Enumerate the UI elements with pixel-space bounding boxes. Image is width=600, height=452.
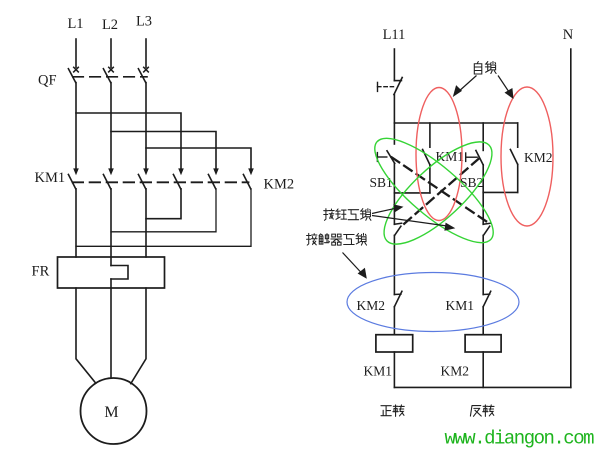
aux contact KM2 join wire [483,191,518,193]
button SB2 NC contact in left branch bar [394,223,401,224]
svg-text:KM2: KM2 [264,177,295,193]
breaker QF pole 2 blade [103,69,110,83]
svg-text:L1: L1 [67,16,83,32]
button SB1 blade [387,151,395,164]
highlight green ellipse button interlock A [361,123,507,258]
arrow self-lock to red ellipse 1 [458,76,477,93]
wire phase2 FR to motor [110,279,112,378]
svg-text:SB1: SB1 [370,175,393,190]
button SB1 NC contact blade [483,226,489,235]
contactor KM1 pole2 arrow [108,168,114,175]
aux contact KM1 blade [423,150,430,165]
button SB2 blade [476,151,483,165]
breaker QF pole 1 blade [68,69,75,83]
wire coil2 to bus [482,352,484,387]
wire branch phase3 to KM2 pole6 [146,148,251,169]
aux contact KM2 wire top [517,123,519,147]
contactor KM2 pole4 blade [173,175,180,189]
wire phase2 KM1 to FR [110,189,112,266]
motor M circle [81,378,147,444]
wire KM2NC to coil [393,307,395,335]
wire phase3 FR to motor [131,288,146,384]
svg-text:M: M [104,404,118,421]
button SB1 actuator [376,153,378,162]
contactor KM1 pole3 arrow [143,168,149,175]
button SB2 actuator [465,153,467,161]
svg-text:KM1: KM1 [436,149,465,164]
aux contact KM2 wire bottom [517,164,519,192]
button SB2 NC contact blade [395,226,401,235]
wire L3 drop to QF [145,39,147,67]
breaker QF pole 3 contact cross [144,67,149,72]
mechanical link dashed SB1 to SB1NC [392,157,487,221]
wire KM2 pole4 cross to phase3 [146,189,181,219]
svg-text:L3: L3 [136,14,152,30]
wire KM1NC to coil [482,307,484,335]
wire phase1 QF to KM1 arrow [75,83,77,170]
coil KM2 [465,335,501,352]
coil KM1 [376,335,413,352]
wire KM2 pole5 cross to phase2 [111,189,216,232]
svg-text:L11: L11 [383,27,406,43]
interlock KM2 NC bar [394,293,401,295]
svg-text:L2: L2 [102,17,118,33]
contactor KM2 pole4 arrow [178,168,184,175]
aux contact KM1 wire bottom [429,165,431,193]
breaker QF linkage dashed [73,76,147,78]
contactor KM2 pole5 arrow [213,168,219,175]
breaker QF pole 2 contact cross [109,67,114,72]
wire control top bus [394,122,517,124]
svg-text:KM2: KM2 [357,298,386,313]
wire branch phase1 to KM2 pole4 [76,113,181,169]
contactor KM2 pole6 arrow [248,168,254,175]
label zisuo (self-lock) [474,62,496,75]
thermal contact FR NC blade [394,78,402,95]
interlock KM1 NC bar [483,293,490,295]
wire N drop [570,49,572,387]
arrow button-interlock lower [372,216,447,227]
thermal relay FR heater jog [111,266,128,280]
wire SB2NC down [393,235,395,294]
wire L11 drop [393,49,395,81]
svg-text:KM2: KM2 [524,150,553,165]
highlight blue ellipse contactor interlock [347,273,519,332]
wire phase1 FR to motor [76,288,96,383]
aux contact KM1 join wire [394,192,430,194]
highlight red ellipse self-lock KM2 [501,87,553,226]
aux contact KM2 blade [510,150,517,165]
svg-text:QF: QF [38,73,57,89]
arrow contactor-interlock to blue ellipse [343,253,363,274]
arrow self-lock to red ellipse 2 [498,76,509,93]
highlight green ellipse button interlock B [370,127,506,259]
wire FR to bus [393,95,395,123]
breaker QF pole 1 contact cross [74,67,79,72]
wire bottom bus to N [394,386,570,388]
svg-text:FR: FR [32,264,50,280]
button SB1 NC contact in right branch bar [483,223,490,224]
contactor KM1 pole2 blade [103,175,110,189]
label zhengzhuan (forward) [381,405,404,416]
thermal contact FR actuator bar [377,82,379,91]
wire coil1 to bus [393,352,395,387]
wire phase1 KM1 to FR [75,189,77,257]
interlock KM2 NC blade [394,291,402,306]
wire SB1 to SB2NC [393,163,395,224]
contactor KM2 pole6 blade [243,175,250,189]
wire branch phase2 to KM2 pole5 [111,132,216,170]
highlight red ellipse self-lock KM1 [416,88,462,221]
wire phase2 QF to KM1 arrow [110,83,112,170]
svg-text:KM2: KM2 [441,364,470,379]
svg-text:www.diangon.com: www.diangon.com [445,428,595,450]
annotation arrows group [343,76,514,279]
label anniu-husuo (button interlock) [324,209,371,221]
arrow button-interlock upper [372,208,396,213]
wire L2 drop to QF [110,39,112,67]
thermal contact FR NC bar [394,80,401,82]
svg-text:KM1: KM1 [446,298,475,313]
wire SB1NC down [482,235,484,294]
svg-text:KM1: KM1 [364,364,393,379]
svg-text:N: N [563,27,574,43]
wire KM2 pole6 cross to phase1 [76,189,251,247]
contactor KM2 pole5 blade [208,175,215,189]
contactor KM1 pole1 blade [68,175,75,189]
contactor KM1 pole3 blade [138,175,145,189]
label jiechuqi-husuo (contactor interlock) [307,233,367,245]
svg-text:KM1: KM1 [35,170,66,186]
contactor linkage dashed KM1-KM2 [73,181,249,183]
breaker QF pole 3 blade [138,69,145,83]
thermal relay FR box [58,257,165,288]
button SB2 upper wire [482,123,484,150]
contactor KM1 pole1 arrow [73,168,79,175]
interlock KM1 NC blade [483,291,491,306]
label fanzhuan (reverse) [470,405,494,416]
thermal contact FR actuator dashed [378,86,394,88]
wire SB2 to SB1NC [482,165,484,224]
button SB1 upper wire [393,123,395,144]
wire phase3 KM1 to FR [145,189,147,257]
wire L1 drop to QF [75,39,77,67]
aux contact KM1 wire top [429,123,431,147]
mechanical link dashed SB2 to SB2NC [402,159,479,226]
wire phase3 QF to KM1 arrow [145,83,147,170]
